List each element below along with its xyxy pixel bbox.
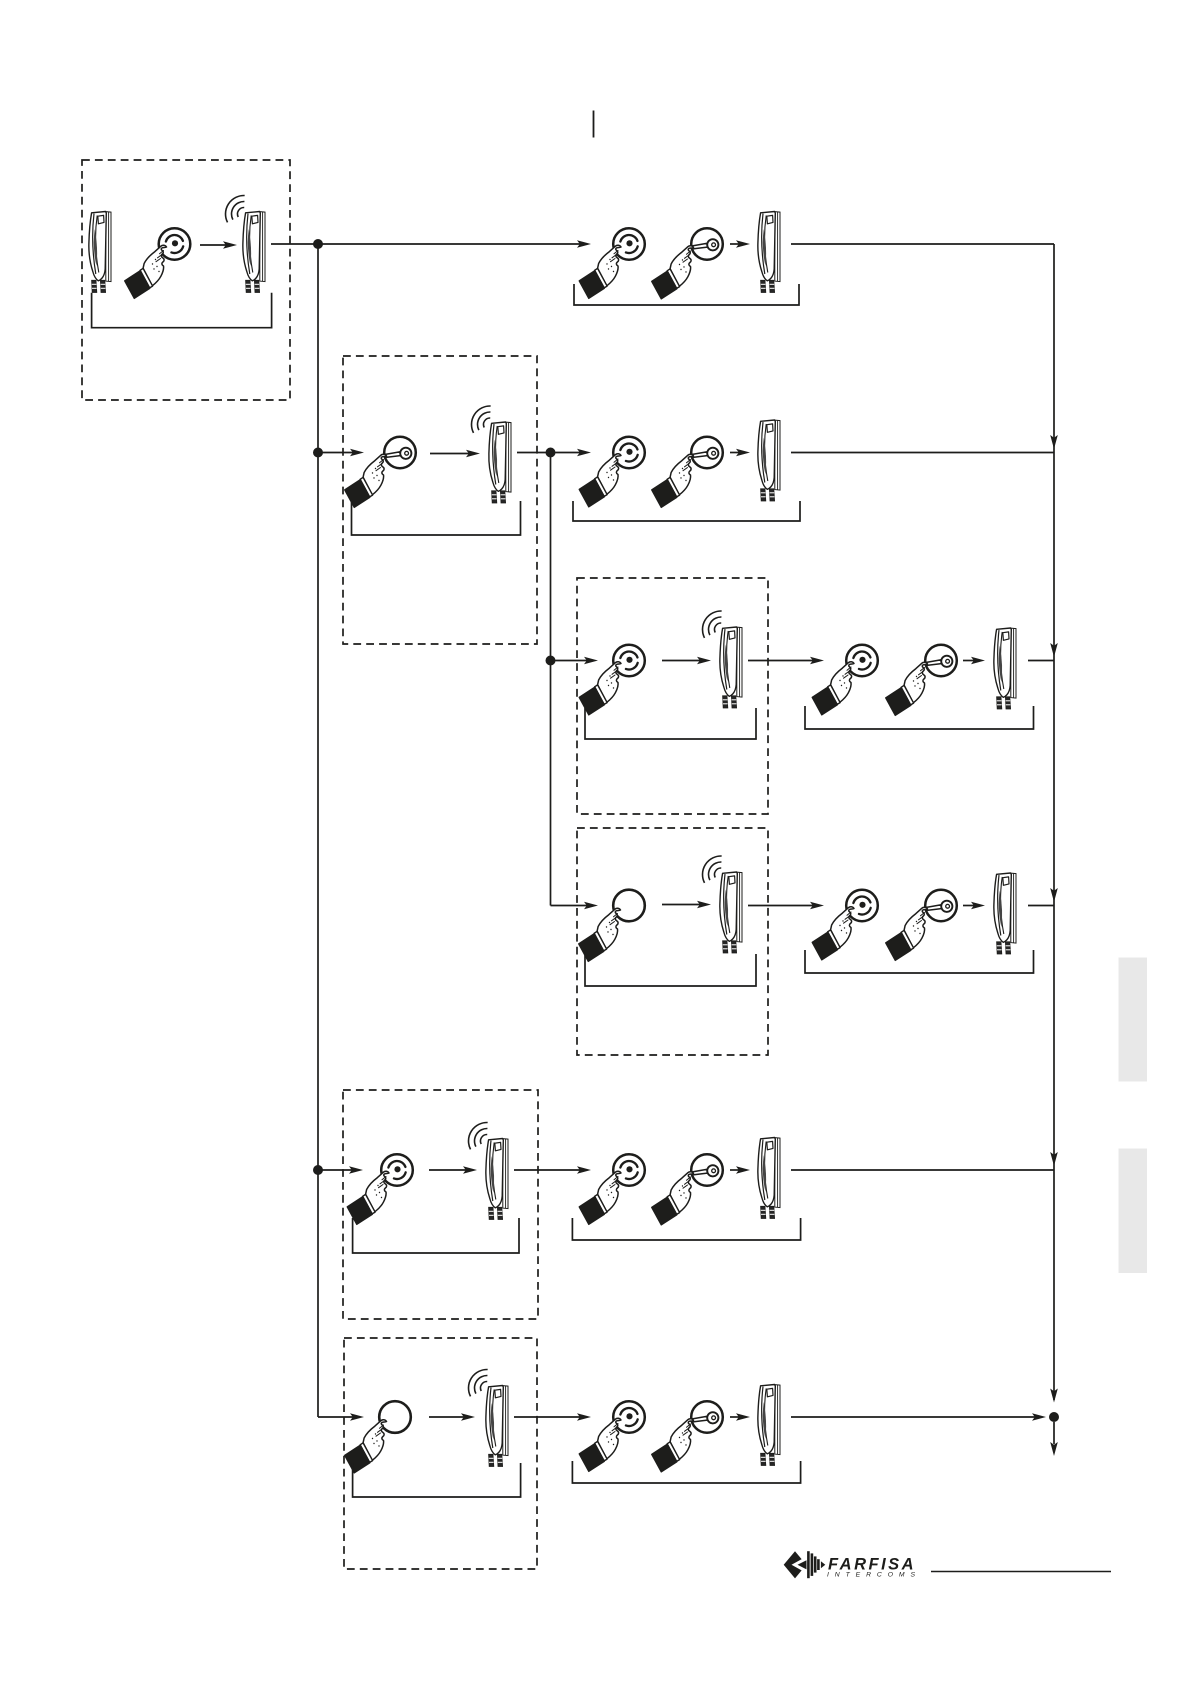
bracket group 1 bbox=[92, 293, 272, 328]
arrow bbox=[429, 1169, 468, 1171]
insert key C3 bbox=[886, 645, 957, 716]
arrow bbox=[662, 904, 702, 906]
node row5 bbox=[313, 1165, 323, 1175]
wire row1 to node bbox=[271, 243, 314, 245]
node row3 bbox=[546, 656, 556, 666]
wire row4 right bbox=[1028, 905, 1054, 907]
arrow bbox=[963, 905, 976, 907]
arrow bbox=[730, 1416, 741, 1418]
handset C6 bbox=[758, 1385, 780, 1466]
insert key C1 bbox=[652, 228, 723, 299]
FARFISA logo mark bbox=[784, 1551, 826, 1578]
handset ringing B3 bbox=[703, 611, 742, 708]
insert key C4 bbox=[886, 890, 957, 961]
merge arrowhead row5 bbox=[1050, 1152, 1058, 1166]
wire row1 right bbox=[791, 243, 1054, 245]
vertical trunk left bbox=[317, 244, 319, 1417]
bracket box3 bbox=[585, 708, 756, 739]
end node bbox=[1049, 1412, 1059, 1422]
insert key C5 bbox=[652, 1154, 723, 1225]
bracket box4 bbox=[585, 954, 756, 986]
dashed box: button group row 3 bbox=[577, 578, 768, 814]
handset C5 bbox=[758, 1138, 780, 1219]
press call button B5 bbox=[347, 1154, 413, 1224]
dashed box: intercom call group 1 bbox=[82, 160, 290, 400]
bracket box2 bbox=[352, 501, 521, 535]
press call button C1 bbox=[579, 228, 645, 298]
dashed box: plain button group row 4 bbox=[577, 828, 768, 1055]
insert key B2 bbox=[345, 437, 416, 508]
press call button B1 bbox=[125, 228, 191, 298]
handset ringing B4 bbox=[703, 856, 742, 953]
arrow bbox=[730, 243, 741, 245]
node row2 left bbox=[313, 448, 323, 458]
handset ringing B5 bbox=[469, 1122, 508, 1219]
bracket row1 right bbox=[574, 284, 799, 305]
press call button C3 bbox=[812, 645, 878, 715]
dashed box: key group row 2 bbox=[343, 356, 537, 644]
node row2 mid bbox=[546, 448, 556, 458]
handset ringing A2 bbox=[226, 195, 265, 292]
arrow into row2 right group bbox=[551, 452, 583, 454]
arrow bbox=[963, 660, 976, 662]
grey tab 1 bbox=[1119, 958, 1148, 1082]
press call button C5 bbox=[579, 1154, 645, 1224]
arrow bbox=[430, 453, 471, 455]
handset C2 bbox=[758, 420, 780, 501]
arrow bbox=[662, 660, 702, 662]
merge arrowhead row4 bbox=[1050, 888, 1058, 902]
vertical trunk mid bbox=[550, 453, 552, 906]
arrow bbox=[730, 452, 741, 454]
wire row3 right bbox=[1028, 660, 1054, 662]
press plain button B4 bbox=[579, 890, 645, 962]
insert key C6 bbox=[652, 1401, 723, 1472]
press call button C2 bbox=[579, 437, 645, 507]
dashed box: plain button group row 6 bbox=[344, 1338, 537, 1569]
wire row6 to end node bbox=[791, 1416, 1037, 1418]
svg-text:INTERCOMS: INTERCOMS bbox=[827, 1572, 921, 1579]
wire to row6 bbox=[318, 1416, 355, 1418]
handset C3 bbox=[994, 628, 1016, 709]
node row1 bbox=[313, 239, 323, 249]
bracket row5 right bbox=[572, 1218, 800, 1240]
arrow into row5 right group bbox=[514, 1169, 582, 1171]
footer rule bbox=[931, 1571, 1111, 1573]
wire row5 right bbox=[791, 1169, 1054, 1171]
arrow into row6 right group bbox=[514, 1416, 582, 1418]
arrow bbox=[200, 244, 228, 246]
arrow into row1 right group bbox=[318, 243, 582, 245]
bracket row4 right bbox=[805, 950, 1034, 973]
bracket row6 right bbox=[572, 1461, 800, 1483]
press plain button B6 bbox=[345, 1401, 411, 1473]
merge arrowhead row3 bbox=[1050, 643, 1058, 657]
arrow into button group bbox=[551, 660, 590, 662]
vertical trunk right bbox=[1053, 244, 1055, 1400]
crop mark bbox=[593, 111, 595, 138]
handset ringing B6 bbox=[469, 1369, 508, 1466]
handset idle A1 bbox=[89, 212, 111, 293]
press call button C4 bbox=[812, 890, 878, 960]
arrow to row3 right group bbox=[748, 660, 815, 662]
bracket box5 bbox=[353, 1218, 519, 1253]
bracket row3 right bbox=[805, 706, 1034, 729]
handset C1 bbox=[758, 212, 780, 293]
arrow into key group bbox=[318, 452, 355, 454]
wire bbox=[517, 452, 547, 454]
merge arrowhead end bbox=[1050, 1389, 1058, 1403]
arrow to row4 right group bbox=[748, 905, 815, 907]
bracket row2 right bbox=[573, 501, 800, 521]
final arrow down bbox=[1053, 1422, 1055, 1444]
handset C4 bbox=[994, 873, 1016, 954]
handset ringing B2 bbox=[472, 406, 511, 503]
insert key C2 bbox=[652, 437, 723, 508]
wire row2 right bbox=[791, 452, 1054, 454]
merge arrowhead row2 bbox=[1050, 435, 1058, 449]
arrow into button group bbox=[318, 1169, 354, 1171]
dashed box: button group row 5 bbox=[343, 1090, 538, 1319]
wire to row4 bbox=[551, 905, 590, 907]
press call button B3 bbox=[579, 645, 645, 715]
arrow bbox=[429, 1416, 466, 1418]
bracket box6 bbox=[353, 1463, 521, 1497]
press call button C6 bbox=[579, 1401, 645, 1471]
grey tab 2 bbox=[1119, 1149, 1148, 1274]
arrow bbox=[730, 1169, 741, 1171]
